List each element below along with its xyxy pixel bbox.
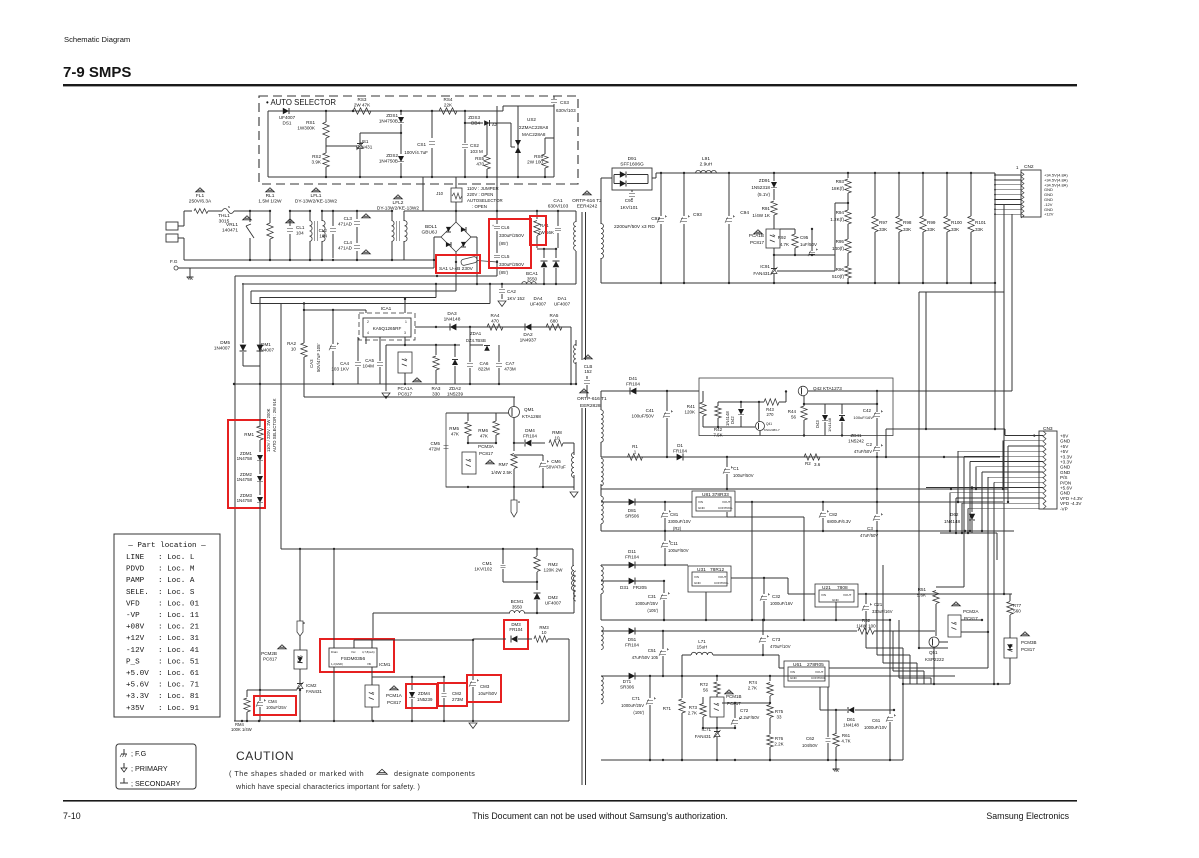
resistor RS1 1W300K [323,122,329,138]
wire C73 to U61 [763,654,779,656]
svg-text:VIN: VIN [694,575,699,579]
zdm column [259,297,261,427]
resistor R42 7.5K [715,406,721,418]
wire mid-left horizontal y303 [251,303,281,305]
svg-text:: Loc. 61: : Loc. 61 [158,670,199,678]
harness feeder pin6 [969,462,971,532]
resistor R96 510 [845,266,851,278]
capacitor C3 47uF/50V [876,457,878,502]
svg-text:RS1: RS1 [306,120,315,125]
transistor Q42 KTA1273 [798,386,808,396]
svg-text:104M: 104M [363,363,375,368]
capacitor C2 47uF/50V [876,436,878,447]
resistor RM7 1/4W 2.5K [513,443,515,451]
svg-text:C41: C41 [646,408,655,413]
harness feeder pin4 [957,451,959,502]
harness feeder pin9 P/S [987,477,989,668]
svg-text:Drain: Drain [331,650,338,654]
svg-text:120K: 120K [684,409,695,414]
primary bus y384 [234,383,571,385]
zener ZD41 1N5242 [839,415,845,421]
svg-text:DZ4.7BSB: DZ4.7BSB [466,338,486,343]
capacitor C61 1000uF/10V [889,620,891,714]
svg-text:PCM2B: PCM2B [261,651,277,656]
ground QM1 [573,487,575,490]
svg-text:C92: C92 [651,216,660,222]
resistor R41 120K [700,402,706,416]
svg-text:152: 152 [584,369,592,374]
svg-text:QM1: QM1 [524,407,534,412]
svg-text:C81: C81 [670,512,679,517]
legend PRIMARY [123,763,125,768]
svg-text:: Loc. A: : Loc. A [158,577,195,585]
svg-text:110V / 220V : 2W 200K: 110V / 220V : 2W 200K [266,408,271,452]
svg-text:3.6: 3.6 [814,462,821,467]
svg-text:U61: U61 [793,662,802,668]
svg-text:33K: 33K [975,227,984,232]
svg-text:C21: C21 [874,602,883,607]
resistor R2 3.6 [804,454,820,460]
wire ICA1 out y327 [415,326,571,328]
harness feeder pin10 P/ON [993,482,995,684]
input top bus wire [404,210,574,212]
svg-text:PC817: PC817 [479,451,493,456]
opto PCA1B PC817 [766,229,780,248]
selector left wire [267,111,269,177]
svg-text:CA6: CA6 [480,361,489,366]
svg-text:Vfb: Vfb [367,662,372,666]
resistor R72 56 [716,676,718,681]
svg-text:470: 470 [476,161,484,166]
diode D61 1N4148 [848,707,854,713]
+5V sense drop [751,502,753,620]
red highlight ICM1 [320,639,394,672]
svg-text:: Loc. 21: : Loc. 21 [158,624,199,632]
svg-text:CA2: CA2 [507,289,516,294]
svg-text:MAC228A8: MAC228A8 [522,132,546,137]
svg-text:• AUTO SELECTOR: • AUTO SELECTOR [266,98,336,107]
rail8 wire [601,456,1000,458]
harness feeder pin2 [1002,441,1004,489]
ICM1 vfb wire [371,667,373,677]
thermistor THL1 3015 [222,209,234,214]
svg-text:R61: R61 [842,733,851,738]
svg-text:C42: C42 [863,408,872,413]
footer rule [63,800,1077,802]
resistor R75 33 [767,705,773,718]
F.G wire [178,267,434,269]
opto PCM2A PC817 [948,615,961,637]
capacitor CA5 104M [379,337,381,361]
CN2 aux drop wires [1003,205,1005,594]
junction [496,210,498,212]
svg-text:FR104: FR104 [509,627,523,632]
svg-text:R91: R91 [762,206,771,211]
diode DM5 1N4007 [242,283,244,343]
capacitor CM3 10uF/50V [472,640,474,680]
svg-text:CONTROL: CONTROL [811,676,826,680]
svg-text:FR104: FR104 [625,642,639,647]
line filter LFL1 [312,188,321,192]
svg-text:Q51: Q51 [929,650,938,655]
regulator U31 78R12 [688,566,731,592]
svg-text:: Loc. 01: : Loc. 01 [158,600,199,608]
svg-text:56: 56 [791,414,797,419]
wire y310 [304,309,366,311]
capacitor C82 6800uF/6.3V [822,502,824,511]
PCM2B diode [297,657,302,662]
T1 winding sec6 [601,676,603,704]
wire y684 [903,683,1010,685]
capacitor CM2 273M [443,677,445,692]
svg-text:472M: 472M [429,446,441,451]
capacitor C81 3300uF/10V [664,502,666,511]
svg-text:R71: R71 [663,706,672,711]
resistor R1 1 [628,454,643,460]
svg-text:US2: US2 [527,117,536,122]
resistor RA4 470 [487,324,503,330]
svg-text:R101: R101 [975,220,986,225]
legend SECONDARY [123,778,125,783]
diode D42 1N4148 [740,402,742,408]
resistor R93 18K [847,173,849,178]
svg-text:+5.6V: +5.6V [126,682,149,690]
selector output drop wire [422,177,424,211]
svg-text:1N4007: 1N4007 [214,345,231,350]
harness feeder pin12 [949,493,951,531]
svg-text:: Loc. M: : Loc. M [158,566,195,574]
QM1 box frame [446,413,495,487]
svg-text:10: 10 [291,346,297,351]
triac US2 MAC228A8 [510,123,512,147]
svg-text:LFL2: LFL2 [393,200,404,206]
bundle corner wires [919,647,948,649]
svg-text:CONTROL: CONTROL [718,506,733,510]
svg-text:EER4242: EER4242 [577,204,598,210]
svg-text:CA1: CA1 [553,198,563,204]
svg-text:: Loc. 91: : Loc. 91 [158,705,199,713]
T1 winding sec4 [601,566,603,594]
capacitor C41 100uF/50V [666,391,668,411]
svg-text:C91: C91 [625,198,634,203]
ICM1 pins [333,549,335,648]
svg-text:7808: 7808 [837,585,848,591]
svg-text:PCM1A: PCM1A [386,693,403,698]
capacitor C51 47uF/50V [662,631,664,649]
red highlight CL5/CL6 [489,219,531,268]
svg-text:RS5: RS5 [475,156,484,161]
svg-text:4: 4 [367,331,369,335]
svg-text:U31: U31 [697,567,706,573]
svg-text:DM1: DM1 [261,342,271,347]
svg-text:: Loc. 71: : Loc. 71 [158,682,199,690]
svg-text:RS2: RS2 [312,154,321,159]
filter junction dots [249,210,251,212]
staircase wire C [242,283,480,285]
PCM2A wires [961,619,982,621]
svg-text:273M: 273M [452,697,463,702]
capacitor CA7 473M [498,345,500,362]
svg-text:22K: 22K [444,102,453,107]
svg-text:CL1: CL1 [296,225,305,230]
svg-text:ICM2: ICM2 [306,683,317,688]
opto PCM1A PC817 [365,685,379,707]
svg-text:SR306: SR306 [620,684,634,689]
capacitor CL5 330uF/250V [494,254,500,256]
svg-text:R93: R93 [836,179,845,184]
U61 out wire [829,667,988,669]
zener ZD91 1N52318 [773,173,775,181]
F.G ground [189,268,191,274]
aux winding T1 primary [572,549,574,566]
svg-text:RM1: RM1 [244,432,254,437]
fuse SA1 U-4B 230V [461,256,478,266]
capacitor CM6 50V/47uF [542,455,544,461]
ground CM3 [469,723,477,728]
resistor RM2 120K 2W [536,549,538,556]
red highlight ZDM4 [406,684,437,708]
svg-text:PCM2A: PCM2A [963,609,979,614]
svg-text:CL6: CL6 [501,225,510,230]
harness lower bus [940,532,997,534]
rail y631 [601,630,857,632]
svg-text:R73: R73 [689,705,698,710]
selector bottom wire [268,176,554,178]
red highlight DM3 [504,620,528,649]
capacitor C95 1uF/50V [809,251,815,253]
selector top wire [268,110,503,112]
bead BCA1 3550 [522,282,536,284]
svg-text:1N4937: 1N4937 [520,338,537,344]
svg-text:R96: R96 [836,267,845,272]
svg-text:GBU6J: GBU6J [422,230,438,236]
harness feeder pin1 [886,428,1005,430]
svg-text:C61: C61 [872,718,881,723]
varistor VRL1 140471 [249,211,251,222]
svg-text:ZDS3: ZDS3 [468,115,480,120]
svg-text:PDVD: PDVD [126,566,145,574]
IC71 ref wire [703,727,735,729]
svg-text:1/4W 2.5K: 1/4W 2.5K [491,470,512,475]
shunt ICM2 FAN431 [297,683,303,685]
svg-text:7-9 SMPS: 7-9 SMPS [63,64,131,81]
svg-text:110V : JUMPER: 110V : JUMPER [467,186,499,191]
svg-text:EER2828: EER2828 [580,403,601,409]
spark gap [511,500,517,517]
resistor R52 1/4W 100 [858,628,874,634]
wire y640 [373,639,473,641]
diode DM3 FR104 [473,638,506,640]
wire y345 feedback [386,344,460,346]
T1 winding sec1 [601,410,603,442]
svg-text:1,2(GND): 1,2(GND) [331,662,343,666]
svg-text:471AD: 471AD [338,245,353,250]
capacitor CS1 100V/4.7uF [431,111,433,138]
capacitor CA1 630V/103 [557,211,559,226]
svg-text:630V/103: 630V/103 [548,204,569,210]
svg-text:VIN: VIN [698,500,703,504]
svg-text:+3.3V: +3.3V [126,693,149,701]
svg-text:10: 10 [554,435,560,440]
svg-text:C3: C3 [867,526,873,531]
svg-text:RM5: RM5 [449,426,459,431]
svg-text:47K: 47K [451,431,460,436]
staircase wire B [235,275,497,277]
svg-text:RA5: RA5 [550,313,559,318]
resistor R92 4.7K [792,234,798,248]
svg-text:1KV/101: 1KV/101 [620,205,638,210]
svg-text:R72: R72 [700,682,709,687]
svg-text:FR104: FR104 [673,448,687,453]
resistor RS6 2W 100 [542,154,548,168]
U31 out wire [731,577,764,579]
svg-text:DM5: DM5 [220,340,230,345]
svg-text:CL2: CL2 [319,228,328,233]
zener ZDM2 1N4758 [257,476,263,482]
red highlight SA1 [436,255,480,273]
svg-text:R75: R75 [775,709,784,714]
svg-text:4.7K: 4.7K [841,738,850,743]
svg-text:UF4007: UF4007 [545,600,562,605]
zener ZDM3 1N4758 [257,497,263,503]
svg-text:: OPEN: : OPEN [472,204,487,209]
capacitor CM4 100uF/25V [259,690,261,701]
harness feeder pin3 [1007,446,1009,502]
resistor RA2 10 [303,304,305,311]
svg-text:2.7K: 2.7K [688,710,697,715]
svg-text:BCM1: BCM1 [511,599,524,604]
svg-text:THL1: THL1 [218,213,230,219]
bridge top lead [455,211,457,222]
diode DM4 FR104 [525,440,531,447]
svg-text:ICM1: ICM1 [379,662,391,668]
svg-text:PCA1B: PCA1B [749,233,764,238]
transformer T1 core [581,408,583,785]
svg-text:CM3: CM3 [480,684,490,689]
regulator U21 7808 [815,584,858,607]
svg-text:1N4758: 1N4758 [237,477,253,482]
svg-text:PAMP: PAMP [126,577,145,585]
svg-text:ORTP-616 T2: ORTP-616 T2 [572,198,602,204]
capacitor C91 1KV/101 [631,190,633,192]
svg-text:4.7K: 4.7K [780,242,789,247]
svg-text:100uF/50V: 100uF/50V [733,473,754,478]
svg-text:KSP2222: KSP2222 [925,657,945,662]
svg-text:VIN: VIN [821,593,826,597]
diode DA3 1N4148 [450,324,456,331]
svg-text:RA3: RA3 [432,386,441,391]
bus drop to lower section [918,292,920,648]
svg-text:1W300K: 1W300K [297,125,316,130]
svg-text:GND: GND [790,676,798,680]
svg-text:50V/47uF 105': 50V/47uF 105' [316,343,321,372]
svg-text:BCA1: BCA1 [526,271,538,276]
capacitor CL6 330uF/250V [496,211,498,224]
svg-text:DA3: DA3 [447,311,457,317]
svg-text:2: 2 [367,320,369,324]
svg-text:100uF/50V: 100uF/50V [632,413,655,418]
svg-text:VRL1: VRL1 [226,222,238,228]
svg-text:-12V: -12V [126,647,145,655]
capacitor C1 100uF/50V [726,457,728,467]
capacitor C73 470uF/10V [762,620,764,635]
svg-text:C31: C31 [648,594,657,599]
diode DA1 UF4007 [555,249,557,258]
svg-text:CM1: CM1 [482,561,492,566]
transformer T2 label [583,191,592,195]
svg-text:F.G: F.G [170,259,178,265]
svg-text:47K: 47K [480,433,489,438]
CLB cap [586,376,588,379]
U21 in wire [787,578,789,594]
svg-text:CN3: CN3 [1043,426,1053,432]
svg-text:C11: C11 [670,541,678,546]
sec ground sym [835,760,837,766]
bridge bottom lead [455,252,457,262]
svg-text:FR205: FR205 [633,585,647,590]
T1 winding sec5 [601,627,603,650]
svg-text:330uF/250V: 330uF/250V [499,262,525,267]
svg-text:C95: C95 [800,235,809,240]
DM bottom wire [243,365,260,367]
svg-text:CN2: CN2 [1024,164,1034,170]
svg-text:RA4: RA4 [491,313,500,318]
resistor RA5 680 [546,324,562,330]
svg-text:1N4750B: 1N4750B [379,118,398,123]
capacitor C32 1000uF/16V [763,578,765,594]
capacitor C72 2.2uF/50V [734,703,736,718]
svg-text:PC817: PC817 [750,240,764,245]
Q42 regulator box [699,378,893,436]
bridge left lead [434,236,441,238]
svg-text:FR104: FR104 [625,554,639,559]
svg-text:PC817: PC817 [1021,647,1035,652]
IC ICM1 FSDM0356 [329,648,377,667]
capacitor CA2 1KV 152 [501,284,503,288]
wire T2 bottom to bus [575,362,577,384]
capacitor C31 1000uF/25V [663,581,665,593]
svg-text:2.9uH: 2.9uH [700,162,713,168]
svg-text:R44: R44 [788,409,797,414]
bleeder resistors R97-R101 [874,173,876,216]
svg-text:designate components: designate components [394,769,475,778]
svg-text:CM4: CM4 [268,699,278,704]
svg-text:FR104: FR104 [626,381,640,386]
Q42 emitter wire [803,434,805,436]
capacitor C42 100uF/16V [876,404,878,412]
svg-text:D11: D11 [628,549,637,554]
aux winding RM8 side [572,453,575,478]
svg-text:VIN: VIN [790,670,795,674]
svg-text:2W 100: 2W 100 [527,159,543,164]
U21 out [858,593,866,595]
staircase wire E [260,297,436,299]
svg-text:CM5: CM5 [430,441,440,446]
input bottom bus wire [184,259,434,261]
svg-text:270: 270 [767,412,775,417]
svg-text:103 M: 103 M [470,149,483,154]
svg-text:822M: 822M [478,366,490,371]
svg-text:1N4007: 1N4007 [258,347,275,352]
svg-text:P_S: P_S [126,658,140,666]
rail12 wire [601,564,688,566]
svg-text:: Loc. 41: : Loc. 41 [158,647,199,655]
svg-text:100uF/50V: 100uF/50V [668,548,689,553]
shunt IC91 FAN431 [771,268,777,270]
svg-text:1.2K(f): 1.2K(f) [830,217,844,222]
capacitor CA4 103 1KV [357,337,359,361]
resistor R43 270 [764,399,779,405]
